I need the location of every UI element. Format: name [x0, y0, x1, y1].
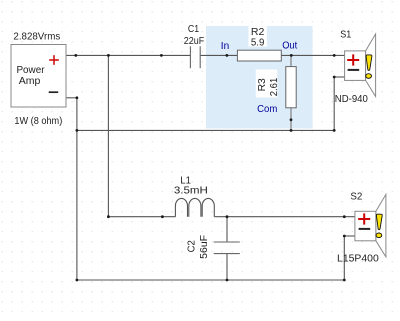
junction dot S2 + pin — [343, 215, 346, 218]
capacitor C1 — [190, 46, 200, 68]
junction dot S2 - pin — [343, 235, 346, 238]
wire: bottom rail — [77, 279, 344, 281]
wire: S2 - vertical — [343, 236, 345, 280]
svg-text:1W (8 ohm): 1W (8 ohm) — [14, 116, 62, 127]
svg-text:C1: C1 — [188, 24, 200, 35]
resistor R2 — [237, 50, 281, 61]
speaker S2 box — [355, 211, 376, 241]
speaker S2 + mark — [358, 213, 370, 224]
junction dot C2 bottom — [226, 279, 229, 282]
svg-text:2.61: 2.61 — [269, 77, 280, 96]
junction dot branch top rail — [107, 54, 110, 57]
junction dot S1 - corner — [333, 129, 336, 132]
junction dot L1 rail mid — [161, 215, 164, 218]
power amp + mark — [49, 55, 59, 65]
wire: middle return rail — [77, 129, 334, 131]
wire: amp - stub — [66, 97, 77, 99]
junction dot amp + — [74, 54, 77, 57]
power amp box — [11, 45, 66, 108]
label R2 background — [249, 26, 267, 46]
svg-text:5.9: 5.9 — [251, 37, 265, 48]
svg-text:3.5mH: 3.5mH — [174, 184, 208, 196]
speaker S1 box — [345, 51, 366, 81]
wire: top rail from amp + to C1 — [66, 54, 190, 56]
junction dot amp - corner — [76, 96, 79, 99]
svg-text:In: In — [221, 41, 229, 52]
junction dot Out node — [290, 54, 293, 57]
resistor R3 — [286, 67, 296, 108]
svg-text:22uF: 22uF — [184, 36, 204, 47]
wire: L1 rail left — [108, 216, 175, 218]
speaker S1 cone — [366, 34, 376, 97]
junction dot top rail mid — [160, 54, 163, 57]
junction dot mid rail left — [76, 129, 79, 132]
svg-text:S1: S1 — [340, 30, 351, 41]
wire: S1 - vertical — [333, 77, 335, 130]
svg-text:Com: Com — [257, 104, 277, 115]
power amp - mark — [49, 91, 59, 93]
speaker S1 warning icon — [366, 55, 372, 78]
svg-text:Amp: Amp — [19, 76, 41, 87]
junction dot S1 + pin — [333, 54, 336, 57]
svg-text:C2: C2 — [187, 240, 198, 253]
svg-text:S2: S2 — [350, 191, 362, 202]
junction dot In pin — [226, 54, 229, 57]
wire: R3 top — [290, 55, 292, 67]
speaker S2 - mark — [359, 228, 371, 230]
svg-text:56uF: 56uF — [199, 235, 210, 259]
junction dot R3 Com pin — [290, 118, 293, 121]
svg-text:ND-940: ND-940 — [335, 94, 368, 105]
wire: L1 rail right to S2 + — [214, 216, 355, 218]
wire: top rail R2 Out to S1 + — [281, 54, 344, 56]
svg-text:Power: Power — [16, 65, 45, 76]
L-pad attenuator highlight region — [206, 26, 313, 129]
speaker S1 - mark — [348, 69, 360, 71]
svg-text:2.828Vrms: 2.828Vrms — [13, 31, 60, 42]
svg-text:L15P400: L15P400 — [337, 254, 379, 265]
svg-text:R3: R3 — [257, 78, 268, 92]
svg-text:Out: Out — [282, 41, 297, 52]
junction dot bottom rail left — [76, 279, 79, 282]
junction dot L1 corner — [107, 215, 110, 218]
label R3 background — [256, 70, 278, 98]
speaker S2 warning icon — [376, 214, 382, 237]
wire: C2 top lead — [226, 217, 228, 242]
capacitor C2 — [214, 242, 240, 254]
speaker S2 cone — [376, 194, 386, 257]
wire: R3 bottom to Com — [290, 108, 292, 131]
junction dot R3 mid rail — [290, 129, 293, 132]
junction dot S1 - pin — [333, 76, 336, 79]
wire: C2 bottom lead — [226, 254, 228, 280]
wire: branch vertical to L1 — [107, 55, 109, 216]
inductor L1 — [175, 198, 214, 216]
wire: top rail C1 to R2 — [200, 54, 237, 56]
speaker S1 + mark — [347, 54, 359, 65]
junction dot C2 top — [226, 215, 229, 218]
junction dot bottom rail right — [343, 279, 346, 282]
wire: left vertical return — [76, 98, 78, 280]
wire: S1 - stub — [334, 76, 344, 78]
wire: S2 - stub — [344, 235, 355, 237]
